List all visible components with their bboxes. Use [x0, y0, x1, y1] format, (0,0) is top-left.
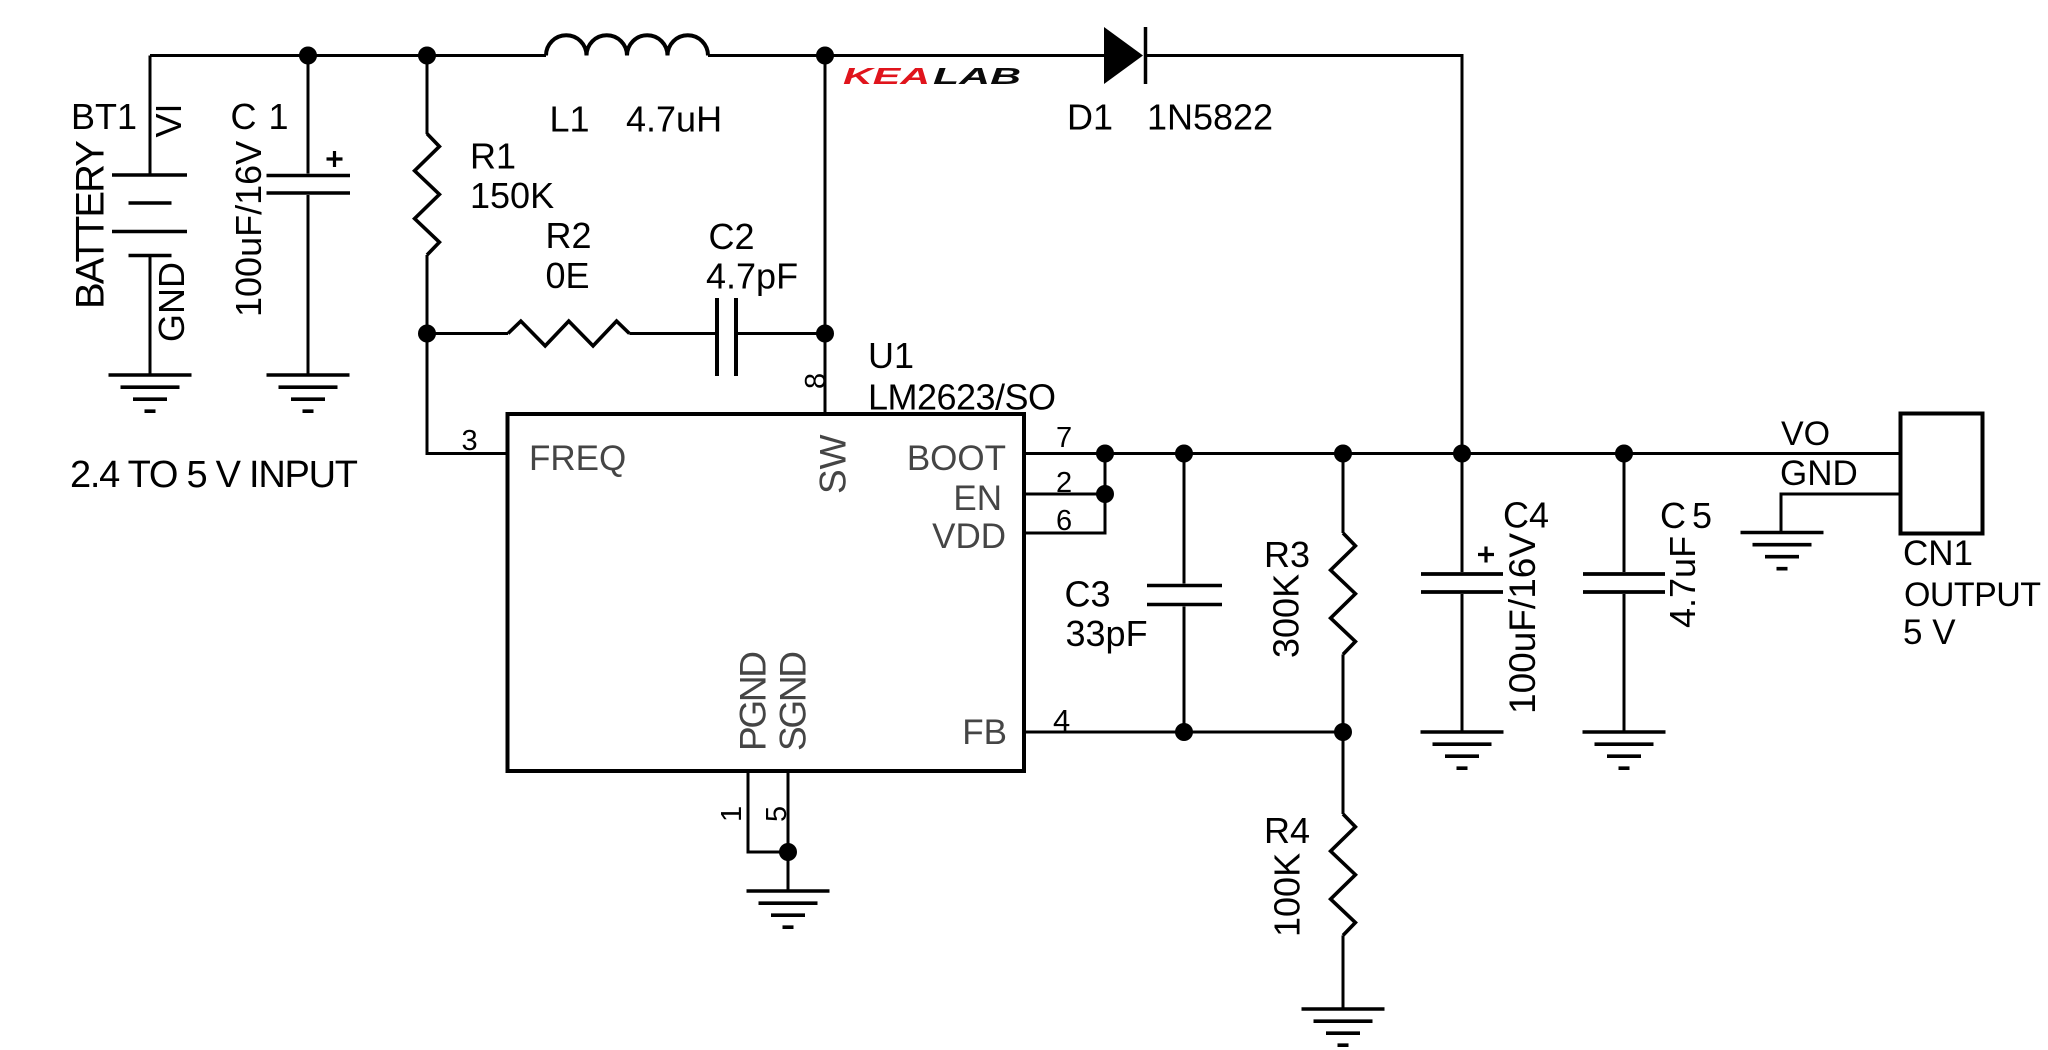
- ground (U1 PGND/SGND): [747, 891, 830, 927]
- svg-text:VI: VI: [148, 103, 189, 137]
- junction dot C1/rail: [299, 47, 317, 65]
- resistor R1: [415, 56, 440, 334]
- svg-text:BATTERY: BATTERY: [69, 140, 113, 309]
- svg-text:BOOT: BOOT: [907, 439, 1006, 478]
- resistor R4: [1331, 732, 1356, 1009]
- capacitor C2: [717, 298, 736, 376]
- svg-text:300K: 300K: [1266, 574, 1307, 658]
- junction dot C3/rail: [1175, 445, 1193, 463]
- svg-text:100uF/16V: 100uF/16V: [1502, 533, 1543, 714]
- wire: VI top rail from battery to inductor: [150, 54, 546, 57]
- svg-text:6: 6: [1056, 505, 1072, 537]
- capacitor C4: [1421, 454, 1503, 733]
- wire: PGND pin 1 stub: [748, 771, 788, 852]
- resistor R2: [508, 321, 629, 346]
- capacitor C3: [1147, 454, 1222, 733]
- svg-text:KEA: KEA: [843, 63, 930, 89]
- svg-text:1N5822: 1N5822: [1147, 97, 1273, 138]
- svg-text:SGND: SGND: [773, 651, 814, 751]
- svg-text:7: 7: [1056, 422, 1072, 454]
- svg-text:GND: GND: [1780, 454, 1858, 493]
- junction dot R1 bottom node: [418, 325, 436, 343]
- diode D1: [1104, 27, 1146, 84]
- svg-text:100K: 100K: [1267, 853, 1308, 937]
- junction dot C4/rail: [1453, 445, 1471, 463]
- wire: SGND pin 5 stub: [787, 771, 790, 891]
- svg-text:2: 2: [1056, 467, 1072, 499]
- svg-text:2.4 TO 5 V INPUT: 2.4 TO 5 V INPUT: [70, 454, 358, 496]
- svg-text:4.7pF: 4.7pF: [706, 256, 798, 297]
- junction dot C3/FB: [1175, 723, 1193, 741]
- logo KEALAB: [843, 63, 1021, 89]
- svg-text:33pF: 33pF: [1066, 613, 1148, 654]
- svg-text:R4: R4: [1264, 810, 1310, 851]
- svg-text:4: 4: [1053, 703, 1070, 738]
- svg-text:OUTPUT: OUTPUT: [1904, 576, 2041, 614]
- svg-text:0E: 0E: [546, 255, 590, 296]
- resistor R3: [1331, 454, 1356, 733]
- wire: SW vertical from top rail to IC: [824, 56, 827, 415]
- svg-text:R3: R3: [1264, 534, 1310, 575]
- ground (battery): [109, 375, 192, 411]
- wire: EN pin: [1024, 493, 1105, 496]
- junction dot pin1/pin5: [779, 843, 797, 861]
- svg-text:C3: C3: [1065, 574, 1111, 615]
- svg-text:VDD: VDD: [932, 517, 1006, 556]
- svg-text:3: 3: [462, 425, 478, 457]
- junction dot R3/rail: [1334, 445, 1352, 463]
- wire: CN1 GND pin to ground: [1781, 494, 1901, 533]
- inductor L1: [546, 35, 708, 55]
- svg-text:EN: EN: [953, 479, 1002, 518]
- svg-text:150K: 150K: [470, 175, 554, 216]
- svg-text:FREQ: FREQ: [529, 439, 626, 478]
- svg-text:GND: GND: [151, 262, 192, 342]
- svg-text:4.7uH: 4.7uH: [626, 99, 722, 140]
- wire: FB pin to divider: [1024, 731, 1343, 734]
- svg-text:FB: FB: [962, 713, 1007, 752]
- capacitor C1: [267, 56, 351, 376]
- svg-text:LM2623/SO: LM2623/SO: [868, 377, 1056, 418]
- junction dot R1/rail: [418, 47, 436, 65]
- wire: inductor to diode anode (SW node): [708, 54, 1104, 57]
- svg-text:L1: L1: [550, 99, 590, 140]
- ground (CN1): [1741, 533, 1824, 569]
- junction dot R3/R4/FB: [1334, 723, 1352, 741]
- wire: R2 to C2: [629, 332, 715, 335]
- svg-text:4.7uF: 4.7uF: [1662, 536, 1703, 628]
- svg-text:100uF/16V: 100uF/16V: [228, 141, 269, 317]
- battery BT1: [112, 56, 187, 376]
- ground (C4): [1421, 732, 1504, 768]
- wire: R1 node down to FREQ pin: [427, 334, 508, 454]
- svg-text:R1: R1: [470, 136, 516, 177]
- wire: BOOT pin to output rail to CN1: [1024, 452, 1901, 455]
- ground (C5): [1583, 732, 1666, 768]
- junction dot C5/rail: [1615, 445, 1633, 463]
- ground (R4): [1302, 1009, 1385, 1045]
- svg-text:5: 5: [761, 806, 793, 822]
- connector CN1 box: [1901, 414, 1983, 534]
- wire: node to R2: [427, 332, 508, 335]
- svg-text:C4: C4: [1503, 495, 1549, 536]
- svg-text:C2: C2: [709, 216, 755, 257]
- svg-text:8: 8: [800, 373, 832, 389]
- svg-text:PGND: PGND: [733, 651, 774, 751]
- svg-text:D1: D1: [1067, 97, 1113, 138]
- wire: VDD pin with riser to BOOT: [1024, 454, 1105, 534]
- svg-text:CN1: CN1: [1903, 534, 1973, 573]
- svg-text:5 V: 5 V: [1903, 613, 1956, 652]
- junction dot SW/top rail: [816, 47, 834, 65]
- junction dot SW/R2C2 node: [816, 325, 834, 343]
- svg-text:1: 1: [716, 806, 748, 822]
- junction dot BOOT node: [1096, 445, 1114, 463]
- svg-text:VO: VO: [1781, 415, 1830, 453]
- svg-text:LAB: LAB: [933, 63, 1021, 89]
- svg-text:U1: U1: [868, 335, 914, 376]
- svg-text:SW: SW: [813, 434, 854, 494]
- svg-text:R2: R2: [546, 215, 592, 256]
- wire: C2 to SW vertical: [738, 332, 825, 335]
- capacitor C5: [1583, 454, 1665, 733]
- junction dot EN node: [1096, 485, 1114, 503]
- op-amp/IC U1 LM2623/SO box: [508, 414, 1025, 771]
- wire: diode cathode to output rail (down at right): [1147, 56, 1462, 454]
- svg-text:BT1: BT1: [71, 96, 137, 137]
- ground (C1): [267, 375, 350, 411]
